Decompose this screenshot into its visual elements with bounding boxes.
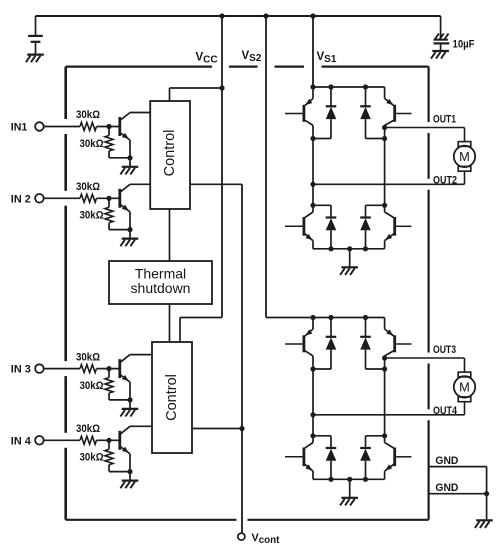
ground (upper bridge) — [340, 267, 358, 275]
transistor high-side left PNP (lower bridge) — [304, 318, 313, 356]
svg-text:shutdown: shutdown — [131, 280, 191, 296]
junction on top rail at VS1 — [310, 13, 315, 18]
wire Q2 collector to Control — [130, 183, 150, 185]
node IN 2 base junction — [106, 196, 111, 201]
wire Q4 collector to Control — [130, 425, 152, 427]
wire right half-bridge vertical (upper bridge) — [384, 125, 386, 205]
wire base stub high-side right (lower bridge) — [396, 343, 411, 345]
label 30kΩ (pull-down, IN1) — [80, 138, 104, 150]
diode D4 flyback lower-right (lower bridge) — [360, 436, 384, 480]
wire base stub high-side left (lower bridge) — [285, 343, 303, 345]
transistor low-side right NPN (lower bridge) — [385, 436, 395, 480]
junction emitter rail d2 (upper bridge) — [363, 246, 368, 251]
node emitter junction IN 3 — [127, 397, 132, 402]
label GND (pin 1) — [435, 455, 458, 467]
junction rail diode2 (lower bridge) — [363, 315, 368, 320]
junction diode2 to right vertical (upper bridge) — [382, 136, 387, 141]
diode D3 flyback lower-left (lower bridge) — [313, 436, 336, 480]
terminal Vcont — [238, 533, 245, 540]
junction GND pins — [484, 491, 489, 496]
label IN 4 — [11, 435, 32, 447]
wire Control U1 right to Vcont line — [190, 183, 242, 185]
wire base stub low-side right (lower bridge) — [396, 456, 411, 458]
transistor Q3 (input, NPN) — [120, 355, 130, 400]
label 30kΩ (pull-down, IN 4) — [80, 452, 104, 464]
ground (below C2) — [431, 51, 449, 59]
wire supply rail (lower bridge) — [266, 317, 385, 319]
resistor 30kΩ (pull-down, IN 3) — [105, 369, 113, 400]
wire resistor to Q2 base — [97, 197, 119, 199]
transistor low-side right NPN (upper bridge) — [385, 205, 395, 249]
resistor 30kΩ (series, IN 2) — [80, 194, 97, 202]
wire Control U2 right to Vcont line — [192, 428, 242, 430]
wire left half-bridge vertical (lower bridge) — [312, 356, 314, 436]
wire IN 4 to series resistor — [44, 439, 80, 441]
wire base stub low-side left (upper bridge) — [285, 225, 303, 227]
label VS1 — [317, 51, 337, 65]
svg-text:30kΩ: 30kΩ — [80, 452, 104, 464]
svg-text:30kΩ: 30kΩ — [80, 210, 104, 222]
resistor 30kΩ (series, IN1) — [80, 123, 97, 131]
wire device box top edge (with gaps at supply lines) — [66, 65, 429, 67]
junction diode2 to right vertical (lower bridge) — [382, 366, 387, 371]
diode D4 flyback lower-right (upper bridge) — [360, 205, 384, 249]
motor M (lower bridge) — [454, 372, 475, 402]
ground (GND pins) — [475, 520, 493, 528]
wire resistor to Q4 base — [97, 439, 119, 441]
terminal IN 3 — [35, 364, 44, 373]
wire motor to OUT2 (upper bridge) — [464, 171, 466, 184]
svg-text:30kΩ: 30kΩ — [76, 351, 100, 363]
svg-text:OUT4: OUT4 — [433, 405, 458, 417]
wire GND pin 2 — [429, 493, 487, 495]
wire VCC elbow to Control U2 top — [180, 318, 222, 343]
wire emitter rail (upper bridge) — [313, 248, 385, 250]
junction low-side left (lower bridge) — [310, 433, 315, 438]
junction low-side right (lower bridge) — [382, 433, 387, 438]
wire base stub low-side right (upper bridge) — [396, 225, 411, 227]
transistor Q1 (input, NPN) — [120, 113, 130, 158]
label Control (lower, rotated) — [164, 374, 180, 421]
node emitter junction IN 2 — [127, 227, 132, 232]
wire GND to ground — [486, 494, 488, 520]
wire base stub high-side left (upper bridge) — [285, 113, 303, 115]
svg-text:IN1: IN1 — [11, 122, 28, 134]
node IN1 base junction — [106, 124, 111, 129]
wire IN 2 to series resistor — [44, 197, 80, 199]
wire device box bottom edge (with gap at Vcont) — [66, 519, 429, 521]
svg-text:10µF: 10µF — [453, 39, 475, 51]
label GND (pin 2) — [435, 482, 458, 494]
diode D3 flyback lower-left (upper bridge) — [313, 205, 336, 249]
svg-text:Control: Control — [162, 130, 178, 177]
wire GND pin 1 — [429, 467, 487, 494]
junction diode1 to left vertical (lower bridge) — [310, 366, 315, 371]
junction rail diode1 (lower bridge) — [328, 315, 333, 320]
node IN 3 base junction — [106, 366, 111, 371]
junction emitter rail d2 (lower bridge) — [363, 477, 368, 482]
transistor high-side left PNP (upper bridge) — [304, 87, 313, 125]
svg-text:M: M — [459, 149, 470, 164]
diode D1 flyback upper-left (lower bridge) — [313, 318, 336, 370]
node emitter junction IN 4 — [127, 469, 132, 474]
diode D2 flyback upper-right (lower bridge) — [360, 318, 384, 370]
junction emitter rail center (lower bridge) — [347, 477, 352, 482]
wire resistor to Q3 base — [97, 368, 119, 370]
junction OUT4 tap — [310, 412, 315, 417]
wire supply rail (upper bridge) — [313, 86, 385, 88]
block U1 Control (upper) — [150, 101, 190, 209]
svg-text:M: M — [459, 380, 470, 395]
label 30kΩ (pull-down, IN 3) — [80, 380, 104, 392]
svg-text:30kΩ: 30kΩ — [76, 181, 100, 193]
wire VCC to Control U1 top — [170, 88, 223, 101]
motor M (upper bridge) — [454, 142, 475, 172]
svg-text:IN 3: IN 3 — [11, 364, 31, 376]
junction on top rail at VS2 — [263, 13, 268, 18]
node IN 4 base junction — [106, 438, 111, 443]
wire OUT4 line — [313, 414, 465, 416]
svg-text:IN 4: IN 4 — [11, 435, 32, 447]
label IN 3 — [11, 364, 31, 376]
resistor 30kΩ (pull-down, IN1) — [105, 127, 113, 158]
svg-text:Control: Control — [164, 374, 180, 421]
wire base stub high-side right (upper bridge) — [396, 113, 411, 115]
label 30kΩ (series, IN 2) — [76, 181, 100, 193]
node emitter junction IN1 — [127, 155, 132, 160]
terminal IN 2 — [35, 194, 44, 203]
label OUT1 — [433, 114, 456, 126]
resistor 30kΩ (pull-down, IN 4) — [105, 440, 113, 471]
resistor 30kΩ (series, IN 3) — [80, 365, 97, 373]
transistor Q4 (input, NPN) — [120, 426, 130, 471]
svg-text:30kΩ: 30kΩ — [80, 380, 104, 392]
label OUT3 — [433, 344, 456, 356]
junction low-side left (upper bridge) — [310, 203, 315, 208]
wire VCC vertical — [221, 16, 223, 318]
transistor low-side left NPN (upper bridge) — [304, 205, 313, 249]
label 10µF — [453, 39, 475, 51]
junction rail left (upper bridge) — [310, 84, 315, 89]
transistor high-side right PNP (lower bridge) — [385, 318, 395, 356]
wire emitter/pull-down to ground (IN 2) — [109, 230, 130, 238]
label Control (upper, rotated) — [162, 130, 178, 177]
svg-text:OUT2: OUT2 — [433, 174, 457, 186]
capacitor C1 (left decoupling) — [28, 16, 43, 54]
junction rail diode1 (upper bridge) — [328, 84, 333, 89]
junction low-side right (upper bridge) — [382, 203, 387, 208]
svg-text:OUT1: OUT1 — [433, 114, 456, 126]
wire OUT1 line — [385, 128, 465, 142]
wire emitter/pull-down to ground (IN 4) — [109, 472, 130, 480]
wire OUT3 line — [385, 358, 465, 372]
junction rail diode2 (upper bridge) — [363, 84, 368, 89]
svg-text:30kΩ: 30kΩ — [76, 109, 100, 121]
label 30kΩ (pull-down, IN 2) — [80, 210, 104, 222]
wire OUT2 line — [313, 183, 465, 185]
capacitor C2 10µF (right, polarized) — [434, 16, 450, 50]
label IN 2 — [11, 193, 31, 205]
junction rail left (lower bridge) — [310, 315, 315, 320]
wire VS2 vertical — [265, 16, 267, 318]
resistor 30kΩ (pull-down, IN 2) — [105, 198, 113, 229]
junction OUT2 tap — [310, 182, 315, 187]
wire right half-bridge vertical (lower bridge) — [384, 356, 386, 436]
wire Control U1 bottom to Thermal shutdown — [169, 209, 171, 261]
label 30kΩ (series, IN1) — [76, 109, 100, 121]
svg-text:30kΩ: 30kΩ — [76, 423, 100, 435]
ground (lower bridge) — [340, 498, 358, 506]
wire left half-bridge vertical (upper bridge) — [312, 125, 314, 205]
junction OUT3 tap — [382, 355, 387, 360]
wire Vcont vertical — [241, 184, 243, 533]
wire ground tap (upper bridge) — [349, 249, 351, 267]
label 30kΩ (series, IN 3) — [76, 351, 100, 363]
wire base stub low-side left (lower bridge) — [285, 456, 303, 458]
junction emitter rail center (upper bridge) — [347, 246, 352, 251]
wire resistor to Q1 base — [97, 126, 119, 128]
junction on top rail at VCC — [219, 13, 224, 18]
junction emitter rail d1 (lower bridge) — [328, 477, 333, 482]
junction diode1 to left vertical (upper bridge) — [310, 136, 315, 141]
label 30kΩ (series, IN 4) — [76, 423, 100, 435]
junction VCC branch — [219, 85, 224, 90]
svg-text:OUT3: OUT3 — [433, 344, 456, 356]
junction Vcont at Control U2 — [239, 426, 244, 431]
wire emitter/pull-down to ground (IN1) — [109, 158, 130, 166]
label Vcont — [252, 532, 281, 546]
diode D1 flyback upper-left (upper bridge) — [313, 87, 336, 139]
wire Q1 collector to Control — [130, 112, 150, 114]
resistor 30kΩ (series, IN 4) — [80, 436, 97, 444]
terminal IN1 — [35, 122, 44, 131]
ground (IN1 stage) — [120, 167, 138, 175]
wire IN1 to series resistor — [44, 126, 80, 128]
ground (IN 3 stage) — [120, 409, 138, 417]
ground (IN 2 stage) — [120, 239, 138, 247]
svg-text:GND: GND — [435, 482, 458, 494]
wire emitter rail (lower bridge) — [313, 478, 385, 480]
block U2 Control (lower) — [152, 342, 192, 453]
wire ground tap (lower bridge) — [349, 479, 351, 497]
wire Thermal shutdown to Control U2 top — [169, 304, 171, 342]
terminal IN 4 — [35, 436, 44, 445]
wire emitter/pull-down to ground (IN 3) — [109, 400, 130, 408]
svg-text:30kΩ: 30kΩ — [80, 138, 104, 150]
diode D2 flyback upper-right (upper bridge) — [360, 87, 384, 139]
junction emitter rail d1 (upper bridge) — [328, 246, 333, 251]
wire device box left edge (with gaps at inputs) — [64, 67, 67, 520]
wire top supply rail — [36, 15, 441, 17]
wire device box right edge (with gaps at outputs) — [428, 67, 430, 520]
wire Q3 collector to Control — [130, 354, 152, 356]
junction OUT1 tap — [382, 125, 387, 130]
wire VS1 vertical — [312, 16, 314, 87]
wire IN 3 to series resistor — [44, 368, 80, 370]
transistor Q2 (input, NPN) — [120, 184, 130, 229]
label IN1 — [11, 122, 28, 134]
svg-text:GND: GND — [435, 455, 458, 467]
label VCC — [196, 52, 218, 66]
block U3 Thermal shutdown — [109, 261, 212, 304]
transistor high-side right PNP (upper bridge) — [385, 87, 395, 125]
label OUT4 — [433, 405, 458, 417]
wire motor to OUT4 (lower bridge) — [464, 402, 466, 415]
transistor low-side left NPN (lower bridge) — [304, 436, 313, 480]
label VS2 — [242, 50, 262, 64]
label OUT2 — [433, 174, 457, 186]
ground (IN 4 stage) — [120, 481, 138, 489]
svg-text:IN 2: IN 2 — [11, 193, 31, 205]
ground (below C1) — [26, 55, 44, 63]
